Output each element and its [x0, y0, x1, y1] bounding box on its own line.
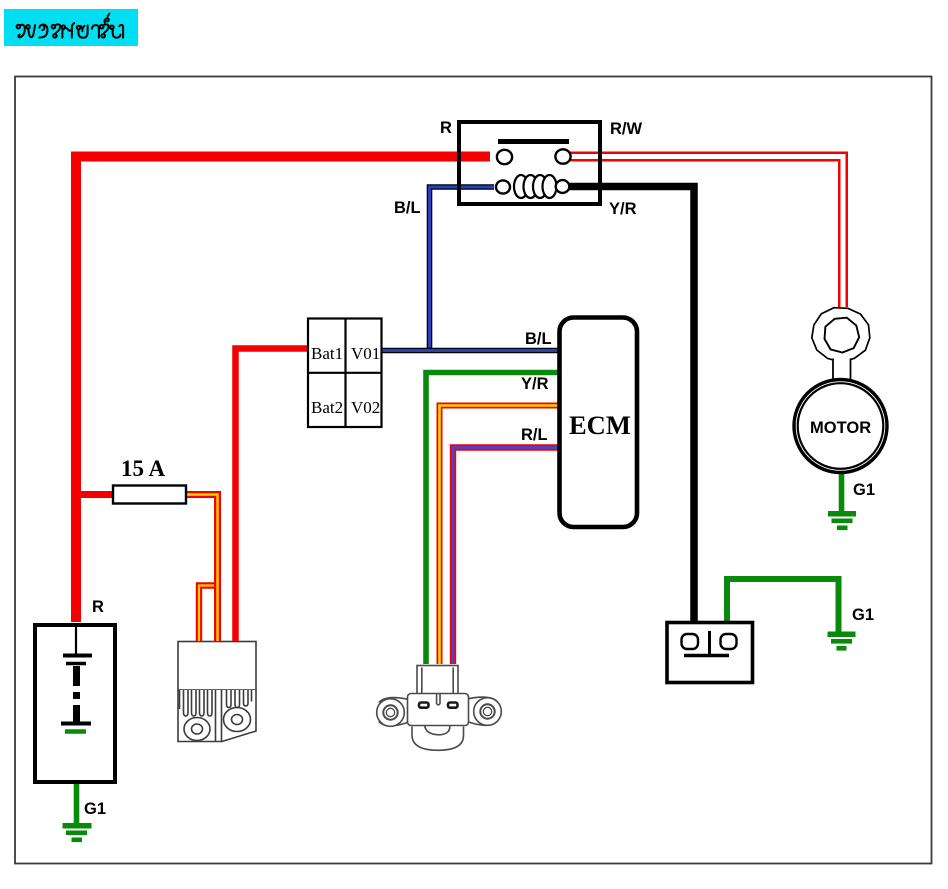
svg-text:Bat2: Bat2	[311, 398, 343, 417]
svg-text:G1: G1	[84, 800, 106, 818]
svg-text:B/L: B/L	[525, 330, 552, 348]
svg-text:G1: G1	[853, 481, 875, 499]
svg-text:15 A: 15 A	[121, 456, 165, 481]
svg-text:Bat1: Bat1	[311, 344, 343, 363]
svg-text:R: R	[92, 598, 104, 616]
svg-text:MOTOR: MOTOR	[810, 419, 871, 437]
svg-text:V01: V01	[351, 344, 380, 363]
svg-text:R/L: R/L	[521, 426, 548, 444]
svg-text:B/L: B/L	[394, 199, 421, 217]
svg-text:R/W: R/W	[610, 120, 643, 138]
svg-text:Y/R: Y/R	[609, 200, 637, 218]
svg-text:Y/R: Y/R	[521, 375, 549, 393]
svg-text:G1: G1	[852, 606, 874, 624]
svg-text:V02: V02	[351, 398, 380, 417]
svg-text:R: R	[440, 119, 452, 137]
svg-text:ECM: ECM	[569, 410, 631, 440]
